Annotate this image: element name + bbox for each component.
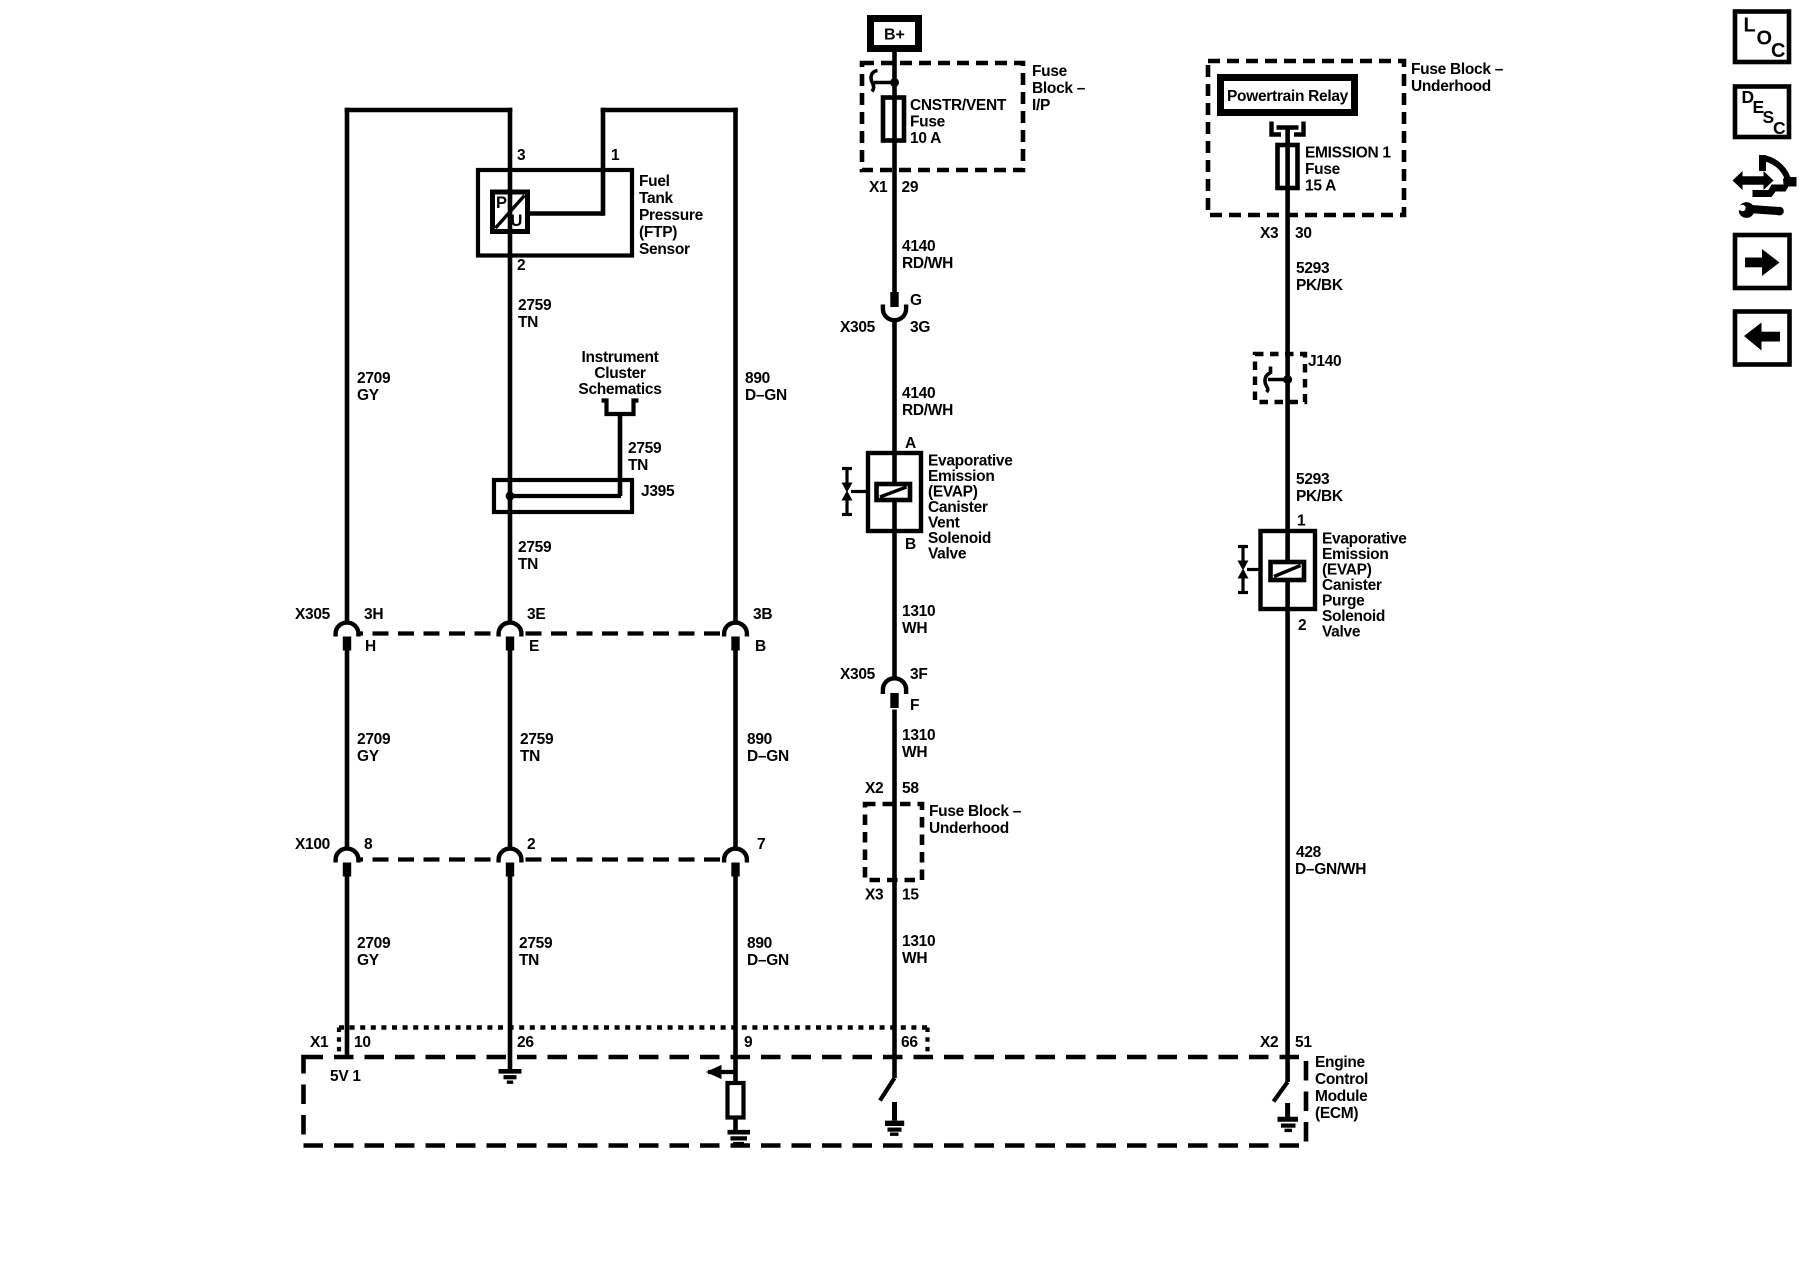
connector X100 terminal 2 arc xyxy=(499,849,522,863)
connector X100 terminal 8 arc xyxy=(336,849,359,863)
svg-text:Vent: Vent xyxy=(928,515,960,532)
svg-text:Evaporative: Evaporative xyxy=(1322,531,1407,548)
svg-text:U: U xyxy=(511,212,523,230)
svg-text:3B: 3B xyxy=(753,606,772,623)
EVAP canister vent solenoid valve box xyxy=(868,453,921,531)
svg-text:1: 1 xyxy=(611,147,620,164)
purge solenoid coil symbol xyxy=(1271,562,1305,580)
connector X100 terminal 7 pin xyxy=(731,863,739,877)
svg-text:H: H xyxy=(365,638,376,655)
svg-text:2759: 2759 xyxy=(520,731,554,748)
svg-text:X3: X3 xyxy=(1260,225,1279,242)
connector X305 terminal 3B pin xyxy=(731,637,739,651)
svg-text:890: 890 xyxy=(745,370,770,387)
connector X100 dashed harness line xyxy=(347,857,736,861)
svg-text:TN: TN xyxy=(519,952,539,969)
svg-text:3H: 3H xyxy=(364,606,383,623)
svg-text:P: P xyxy=(496,194,507,212)
svg-text:D–GN: D–GN xyxy=(747,748,789,765)
wire 890 D-GN vertical upper segment xyxy=(733,108,738,625)
svg-text:15: 15 xyxy=(902,887,919,904)
svg-text:B: B xyxy=(905,536,916,553)
svg-text:J140: J140 xyxy=(1308,353,1341,370)
svg-text:D–GN: D–GN xyxy=(747,952,789,969)
wire 2759 TN vertical upper segment xyxy=(508,108,513,625)
svg-text:Sensor: Sensor xyxy=(639,241,690,258)
instrument cluster schematics reference label xyxy=(578,349,661,398)
svg-text:890: 890 xyxy=(747,935,772,952)
svg-text:(EVAP): (EVAP) xyxy=(1322,562,1372,579)
ECM internal driver switch at pin 51 xyxy=(1274,1082,1288,1102)
svg-text:X1: X1 xyxy=(310,1034,329,1051)
svg-text:Schematics: Schematics xyxy=(578,381,661,398)
svg-text:2709: 2709 xyxy=(357,935,391,952)
svg-text:X305: X305 xyxy=(840,319,876,336)
svg-text:2: 2 xyxy=(1298,617,1306,634)
fuse CNSTR/VENT 10A xyxy=(883,98,904,141)
svg-text:428: 428 xyxy=(1296,844,1322,861)
fuel tank pressure sensor box xyxy=(478,170,632,256)
svg-text:3G: 3G xyxy=(910,319,930,336)
svg-text:890: 890 xyxy=(747,731,772,748)
connector X305 terminal 3B arc xyxy=(724,623,747,637)
svg-text:A: A xyxy=(905,435,916,452)
svg-text:D–GN/WH: D–GN/WH xyxy=(1295,861,1366,878)
wire 2709 GY top horizontal xyxy=(345,108,513,113)
wire FTP sensor pin 1 horizontal to P/U symbol xyxy=(528,211,603,216)
battery feed B+ symbol xyxy=(871,19,919,49)
svg-text:Fuse: Fuse xyxy=(1305,161,1341,178)
forward arrow button xyxy=(1735,235,1790,288)
svg-text:Canister: Canister xyxy=(1322,577,1382,594)
svg-text:GY: GY xyxy=(357,952,380,969)
svg-text:Engine: Engine xyxy=(1315,1054,1366,1071)
svg-text:1310: 1310 xyxy=(902,727,935,744)
svg-text:Valve: Valve xyxy=(928,546,967,563)
svg-text:F: F xyxy=(910,697,919,714)
svg-text:2: 2 xyxy=(517,257,525,274)
svg-text:2759: 2759 xyxy=(519,935,553,952)
svg-text:30: 30 xyxy=(1295,225,1312,242)
svg-text:Cluster: Cluster xyxy=(594,365,646,382)
wire X305 to vent solenoid xyxy=(892,321,897,454)
FTP sensor P/U transducer symbol xyxy=(493,192,528,232)
svg-text:58: 58 xyxy=(902,780,919,797)
svg-text:Instrument: Instrument xyxy=(581,349,658,366)
ECM connector X1 dotted left end xyxy=(337,1028,341,1053)
svg-text:E: E xyxy=(529,638,539,655)
EVAP canister vent solenoid valve name label xyxy=(928,453,1013,563)
svg-text:Valve: Valve xyxy=(1322,624,1361,641)
svg-text:5V 1: 5V 1 xyxy=(330,1068,361,1085)
svg-text:Fuse Block –: Fuse Block – xyxy=(1411,61,1504,78)
EVAP canister purge solenoid valve box xyxy=(1261,531,1316,609)
svg-text:(EVAP): (EVAP) xyxy=(928,484,978,501)
svg-text:D–GN: D–GN xyxy=(745,387,787,404)
svg-text:Tank: Tank xyxy=(639,190,674,207)
vent solenoid coil symbol xyxy=(877,484,911,500)
splice J140 hook symbol xyxy=(1265,367,1292,393)
svg-text:66: 66 xyxy=(901,1034,918,1051)
svg-text:Underhood: Underhood xyxy=(929,820,1009,837)
wire 2709 GY vertical upper segment xyxy=(345,108,350,625)
svg-text:TN: TN xyxy=(628,457,648,474)
connector X305 terminal 3E arc xyxy=(499,623,522,637)
connector X305 terminal 3H pin xyxy=(343,637,351,651)
svg-text:Fuse: Fuse xyxy=(1032,63,1068,80)
svg-text:TN: TN xyxy=(520,748,540,765)
fuse EMISSION 1 15A xyxy=(1278,145,1298,188)
svg-text:Pressure: Pressure xyxy=(639,207,704,224)
ECM internal signal arrow at pin 9 xyxy=(706,1065,738,1079)
svg-text:WH: WH xyxy=(902,620,927,637)
svg-text:9: 9 xyxy=(744,1034,753,1051)
fuse block underhood pass-through dashed box xyxy=(865,804,922,880)
svg-text:X305: X305 xyxy=(295,606,331,623)
ECM internal ground at pin 66 xyxy=(885,1102,904,1134)
FTP sensor name label xyxy=(639,173,704,258)
svg-text:Canister: Canister xyxy=(928,499,988,516)
svg-text:RD/WH: RD/WH xyxy=(902,402,953,419)
svg-text:RD/WH: RD/WH xyxy=(902,255,953,272)
svg-text:Module: Module xyxy=(1315,1088,1368,1105)
svg-text:X305: X305 xyxy=(840,666,876,683)
svg-text:10 A: 10 A xyxy=(910,130,941,147)
svg-text:Underhood: Underhood xyxy=(1411,78,1491,95)
connector X305 terminal 3H arc xyxy=(336,623,359,637)
svg-text:29: 29 xyxy=(902,179,919,196)
wire 3F to fuse block underhood xyxy=(892,710,897,1079)
svg-text:10: 10 xyxy=(354,1034,371,1051)
svg-text:7: 7 xyxy=(757,836,765,853)
DESC button xyxy=(1735,87,1789,139)
harness navigation icon xyxy=(1733,155,1797,218)
svg-text:3E: 3E xyxy=(527,606,545,623)
wire 2759 TN drop from instrument cluster xyxy=(618,414,623,496)
splice J395 box xyxy=(494,480,632,512)
svg-text:Powertrain Relay: Powertrain Relay xyxy=(1227,88,1349,105)
svg-text:GY: GY xyxy=(357,748,380,765)
svg-text:X2: X2 xyxy=(865,780,883,797)
svg-text:5293: 5293 xyxy=(1296,260,1330,277)
svg-text:X3: X3 xyxy=(865,887,884,904)
svg-text:B: B xyxy=(755,638,766,655)
svg-text:Fuse: Fuse xyxy=(910,114,946,131)
svg-text:3: 3 xyxy=(517,147,526,164)
svg-text:2759: 2759 xyxy=(628,440,662,457)
svg-text:1310: 1310 xyxy=(902,933,935,950)
wire 890 D-GN top horizontal xyxy=(601,108,738,113)
svg-text:TN: TN xyxy=(518,314,538,331)
svg-text:Fuel: Fuel xyxy=(639,173,670,190)
svg-text:C: C xyxy=(1771,40,1785,62)
ECM dashed box xyxy=(304,1057,1307,1146)
svg-text:8: 8 xyxy=(364,836,373,853)
svg-text:3F: 3F xyxy=(910,666,928,683)
svg-text:2759: 2759 xyxy=(518,297,552,314)
ECM internal ground at pin 26 xyxy=(499,1071,522,1082)
svg-text:(FTP): (FTP) xyxy=(639,224,677,241)
connector X100 terminal 8 pin xyxy=(343,863,351,877)
ECM internal pull-up resistor at pin 9 xyxy=(728,1083,744,1131)
svg-text:GY: GY xyxy=(357,387,380,404)
svg-text:Solenoid: Solenoid xyxy=(928,530,991,547)
engine control module name label xyxy=(1315,1054,1368,1122)
svg-text:15 A: 15 A xyxy=(1305,178,1336,195)
svg-text:Block –: Block – xyxy=(1032,80,1086,97)
svg-text:X1: X1 xyxy=(869,179,888,196)
back arrow button xyxy=(1735,312,1790,365)
svg-text:Fuse Block –: Fuse Block – xyxy=(929,803,1022,820)
svg-text:1: 1 xyxy=(1297,513,1306,530)
svg-text:26: 26 xyxy=(517,1034,534,1051)
wire 2759 TN lower segment xyxy=(508,877,513,1070)
splice J395 internal bus xyxy=(510,494,621,498)
svg-text:WH: WH xyxy=(902,950,927,967)
connector X305 terminal G arc xyxy=(883,305,906,321)
connector X305 terminal 3F arc xyxy=(883,678,906,694)
connector X305 terminal 3F pin xyxy=(890,693,898,708)
svg-text:PK/BK: PK/BK xyxy=(1296,488,1344,505)
purge solenoid pneumatic valve symbol xyxy=(1238,547,1261,593)
vent solenoid pneumatic valve symbol xyxy=(842,469,869,515)
wire 890 D-GN mid segment xyxy=(733,651,738,852)
fuse block underhood name label xyxy=(1411,61,1504,95)
wire 890 D-GN lower segment xyxy=(733,877,738,1084)
wire relay to fuse xyxy=(1285,128,1290,1083)
connector X100 terminal 2 pin xyxy=(506,863,514,877)
svg-text:L: L xyxy=(1744,15,1756,37)
svg-text:1310: 1310 xyxy=(902,603,935,620)
svg-text:I/P: I/P xyxy=(1032,97,1050,114)
wire FTP sensor pin 1 vertical xyxy=(601,108,606,216)
fuse block I/P name label xyxy=(1032,63,1086,114)
svg-text:Solenoid: Solenoid xyxy=(1322,608,1385,625)
wire 2709 GY lower segment xyxy=(345,877,350,1058)
ECM connector X1 dotted right end xyxy=(925,1028,929,1053)
svg-text:C: C xyxy=(1773,118,1786,138)
svg-text:TN: TN xyxy=(518,556,538,573)
fuse EMISSION 1 label xyxy=(1305,145,1391,195)
fuse block I/P dashed box xyxy=(862,63,1023,170)
svg-text:4140: 4140 xyxy=(902,238,935,255)
svg-text:5293: 5293 xyxy=(1296,471,1330,488)
svg-text:WH: WH xyxy=(902,744,927,761)
svg-text:EMISSION 1: EMISSION 1 xyxy=(1305,145,1391,162)
svg-text:Emission: Emission xyxy=(1322,546,1389,563)
svg-text:2709: 2709 xyxy=(357,370,391,387)
powertrain relay label box xyxy=(1221,78,1355,113)
svg-text:X100: X100 xyxy=(295,836,330,853)
wire 2709 GY mid segment xyxy=(345,651,350,852)
svg-text:2: 2 xyxy=(527,836,535,853)
svg-text:G: G xyxy=(910,292,922,309)
svg-text:Evaporative: Evaporative xyxy=(928,453,1013,470)
svg-text:Control: Control xyxy=(1315,1071,1368,1088)
ECM internal driver switch at pin 66 xyxy=(880,1078,895,1101)
svg-text:51: 51 xyxy=(1295,1034,1312,1051)
svg-text:(ECM): (ECM) xyxy=(1315,1105,1358,1122)
svg-text:Emission: Emission xyxy=(928,468,995,485)
svg-text:X2: X2 xyxy=(1260,1034,1278,1051)
ECM connector X1 dotted line xyxy=(339,1025,930,1030)
bus bar hook in fuse block I/P xyxy=(871,71,899,92)
instrument cluster off-page bracket xyxy=(602,401,639,415)
svg-text:J395: J395 xyxy=(641,483,675,500)
svg-text:2709: 2709 xyxy=(357,731,391,748)
wire B+ to fuse block xyxy=(892,52,897,292)
wire 2759 TN mid segment xyxy=(508,651,513,852)
connector X100 terminal 7 arc xyxy=(724,849,747,863)
svg-text:4140: 4140 xyxy=(902,385,935,402)
svg-text:2759: 2759 xyxy=(518,539,552,556)
LOC button xyxy=(1735,12,1789,63)
splice J140 dashed box xyxy=(1255,354,1305,402)
connector X305 dashed harness line xyxy=(347,631,736,635)
svg-text:Purge: Purge xyxy=(1322,593,1365,610)
wire through vent solenoid xyxy=(892,453,897,680)
connector X305 terminal G pin xyxy=(890,292,898,307)
fuse block underhood pass-through label xyxy=(929,803,1022,837)
svg-text:PK/BK: PK/BK xyxy=(1296,277,1344,294)
svg-text:CNSTR/VENT: CNSTR/VENT xyxy=(910,97,1007,114)
fuse CNSTR/VENT label xyxy=(910,97,1007,147)
powertrain relay contact bracket xyxy=(1272,122,1304,135)
ECM internal ground at pin 51 xyxy=(1278,1103,1299,1130)
svg-text:B+: B+ xyxy=(884,27,905,44)
ECM internal ground below resistor xyxy=(728,1132,751,1143)
svg-text:O: O xyxy=(1757,28,1773,50)
fuse block underhood dashed box xyxy=(1208,61,1404,215)
connector X305 terminal 3E pin xyxy=(506,637,514,651)
splice J395 junction dot xyxy=(506,492,515,501)
EVAP canister purge solenoid valve name label xyxy=(1322,531,1407,641)
